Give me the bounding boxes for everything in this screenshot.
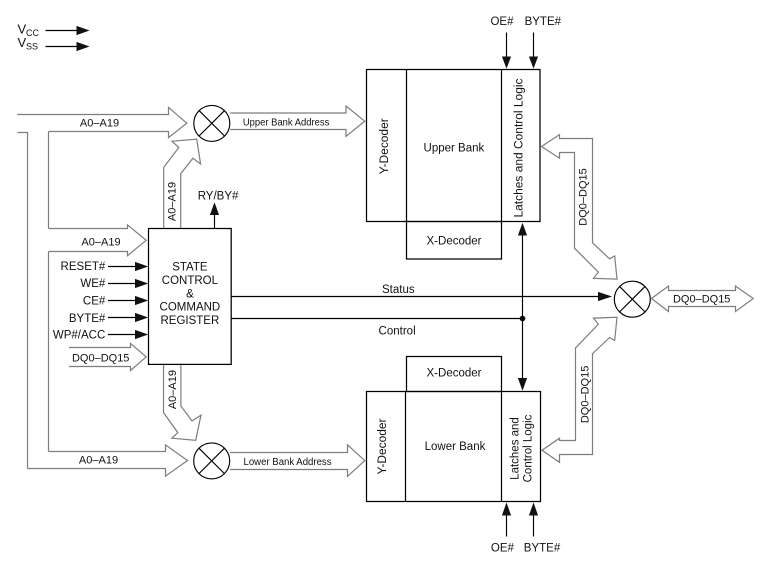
svg-text:RESET#: RESET# [61, 261, 106, 273]
svg-text:DQ0–DQ15: DQ0–DQ15 [578, 168, 590, 225]
svg-text:BYTE#: BYTE# [525, 16, 562, 28]
bus A0-A19 bent arrow state control to upper multiplexer [164, 139, 201, 228]
node VSS label [18, 35, 39, 52]
svg-text:Y-Decoder: Y-Decoder [377, 418, 389, 474]
block upper bank group [367, 70, 541, 222]
bus DQ0-DQ15 upper bank to output multiplexer [542, 135, 618, 280]
svg-text:RY/BY#: RY/BY# [198, 190, 239, 202]
multiplexer lower address [194, 443, 230, 479]
bus A0-A19 branch into state control register [49, 225, 147, 256]
bus DQ0-DQ15 into state control register [69, 343, 146, 370]
svg-text:STATE: STATE [172, 262, 208, 274]
svg-text:Upper Bank: Upper Bank [424, 143, 485, 155]
svg-text:Upper Bank Address: Upper Bank Address [243, 117, 330, 128]
svg-text:OE#: OE# [491, 542, 515, 554]
svg-text:Status: Status [382, 284, 415, 296]
bus Lower Bank Address arrow [230, 445, 365, 477]
wire BYTE# input [108, 313, 148, 322]
bus DQ0-DQ15 bidirectional output [652, 286, 754, 312]
svg-text:Latches and Control Logic: Latches and Control Logic [514, 78, 526, 217]
bus Upper Bank Address arrow [230, 106, 365, 136]
svg-text:WE#: WE# [80, 278, 106, 290]
wire VCC arrow [46, 26, 90, 35]
svg-text:CE#: CE# [83, 296, 106, 308]
svg-text:Lower Bank: Lower Bank [425, 441, 486, 453]
svg-text:DQ0–DQ15: DQ0–DQ15 [673, 293, 730, 305]
svg-text:A0–A19: A0–A19 [79, 455, 118, 467]
svg-text:X-Decoder: X-Decoder [427, 236, 482, 248]
wire BYTE# input top [529, 33, 538, 69]
svg-text:OE#: OE# [490, 16, 514, 28]
svg-text:REGISTER: REGISTER [161, 315, 220, 327]
svg-text:CC: CC [26, 28, 39, 38]
svg-text:A0–A19: A0–A19 [81, 236, 120, 248]
wire WE# input [108, 279, 148, 288]
wire vertical control between banks [518, 223, 527, 391]
wire RY/BY# output [210, 202, 219, 228]
svg-text:COMMAND: COMMAND [160, 302, 221, 314]
svg-text:Latches and: Latches and [509, 417, 521, 480]
wire OE# input top [502, 33, 511, 69]
svg-text:CONTROL: CONTROL [162, 275, 219, 287]
bus A0-A19 top into upper multiplexer [17, 107, 187, 137]
svg-text:Control: Control [379, 325, 416, 337]
svg-text:Y-Decoder: Y-Decoder [379, 118, 391, 174]
svg-text:SS: SS [26, 42, 38, 52]
svg-text:A0–A19: A0–A19 [167, 370, 179, 409]
svg-text:BYTE#: BYTE# [524, 542, 561, 554]
junction control dot [520, 316, 526, 322]
bus vertical A0-A19 left trunk inner edge upper segment [48, 132, 50, 229]
svg-text:A0–A19: A0–A19 [167, 182, 179, 221]
svg-text:WP#/ACC: WP#/ACC [53, 330, 105, 342]
block state control and command register U1 [149, 229, 232, 365]
svg-text:Control Logic: Control Logic [523, 414, 535, 482]
svg-text:A0–A19: A0–A19 [80, 117, 119, 129]
wire VSS arrow [46, 42, 90, 51]
bus DQ0-DQ15 lower bank to output multiplexer [542, 317, 617, 462]
wire Status line to output multiplexer [231, 292, 612, 301]
bus vertical A0-A19 left trunk outer edge [17, 133, 27, 469]
svg-text:&: & [186, 288, 194, 300]
wire OE# input bottom [502, 503, 511, 537]
bus vertical A0-A19 left trunk inner edge lower segment [48, 252, 50, 452]
svg-text:BYTE#: BYTE# [69, 313, 106, 325]
block lower bank group [367, 392, 541, 502]
block upper x-decoder [407, 222, 502, 260]
wire RESET# input [108, 262, 148, 271]
svg-text:X-Decoder: X-Decoder [427, 368, 482, 380]
svg-text:Lower Bank Address: Lower Bank Address [244, 457, 332, 468]
multiplexer upper address [194, 105, 230, 141]
bus A0-A19 bottom into lower multiplexer [28, 445, 188, 476]
node Latches and Control Logic label lower [509, 414, 534, 482]
block lower x-decoder [407, 357, 502, 392]
wire BYTE# input bottom [529, 503, 538, 537]
svg-text:DQ0–DQ15: DQ0–DQ15 [72, 352, 129, 364]
bus A0-A19 bent arrow state control to lower multiplexer [164, 364, 202, 441]
svg-text:DQ0–DQ15: DQ0–DQ15 [580, 366, 592, 423]
wire Control line [231, 318, 523, 320]
multiplexer data output [614, 281, 650, 317]
wire CE# input [108, 296, 148, 305]
wire WP#/ACC input [108, 330, 148, 339]
node VCC label [18, 22, 40, 39]
